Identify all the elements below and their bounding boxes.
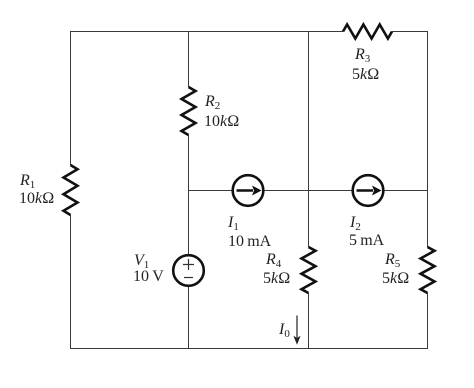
svg-text:5kΩ: 5kΩ [382, 270, 409, 287]
resistor R3 [343, 25, 392, 39]
wire: bottom side [70, 348, 428, 350]
svg-text:R4: R4 [265, 251, 282, 270]
svg-text:I2: I2 [349, 214, 361, 233]
svg-text:R1: R1 [19, 172, 35, 191]
svg-text:R5: R5 [384, 251, 401, 270]
wire: right side below R5 [427, 293, 429, 349]
svg-text:5kΩ: 5kΩ [352, 66, 379, 83]
wire: middle vertical above R2 [188, 31, 190, 87]
wire: left side below R1 [70, 215, 72, 349]
current source I2 [353, 175, 384, 206]
wire: middle horizontal between I1 and I2 [263, 190, 353, 192]
resistor R5 [421, 247, 435, 293]
current arrow I0 [293, 316, 300, 345]
wire: top side left of R3 [70, 31, 343, 33]
resistor R2 [182, 87, 196, 135]
voltage source V1 [173, 255, 204, 286]
svg-text:10 V: 10 V [133, 268, 164, 285]
resistor R1 [64, 165, 78, 215]
wire: top side right of R3 [392, 31, 428, 33]
current source I1 [233, 175, 264, 206]
wire: middle vertical between R2 and V1 [188, 135, 190, 255]
svg-text:5 mA: 5 mA [349, 232, 385, 249]
wire: middle vertical below V1 [188, 286, 190, 349]
svg-text:5kΩ: 5kΩ [263, 270, 290, 287]
wire: second vertical above R4 [308, 31, 310, 247]
wire: middle horizontal right of I2 [383, 190, 428, 192]
svg-text:10 mA: 10 mA [228, 233, 272, 250]
svg-text:I1: I1 [227, 214, 239, 233]
svg-text:R2: R2 [204, 93, 220, 112]
resistor R4 [302, 247, 316, 293]
svg-text:I0: I0 [278, 321, 290, 340]
wire: second vertical below R4 [308, 293, 310, 349]
wire: left side above R1 [70, 31, 72, 165]
svg-text:R3: R3 [354, 46, 371, 65]
wire: right side above R5 [427, 31, 429, 247]
svg-text:10kΩ: 10kΩ [204, 113, 239, 130]
wire: middle horizontal left of I1 [189, 190, 234, 192]
svg-text:10kΩ: 10kΩ [19, 190, 54, 207]
